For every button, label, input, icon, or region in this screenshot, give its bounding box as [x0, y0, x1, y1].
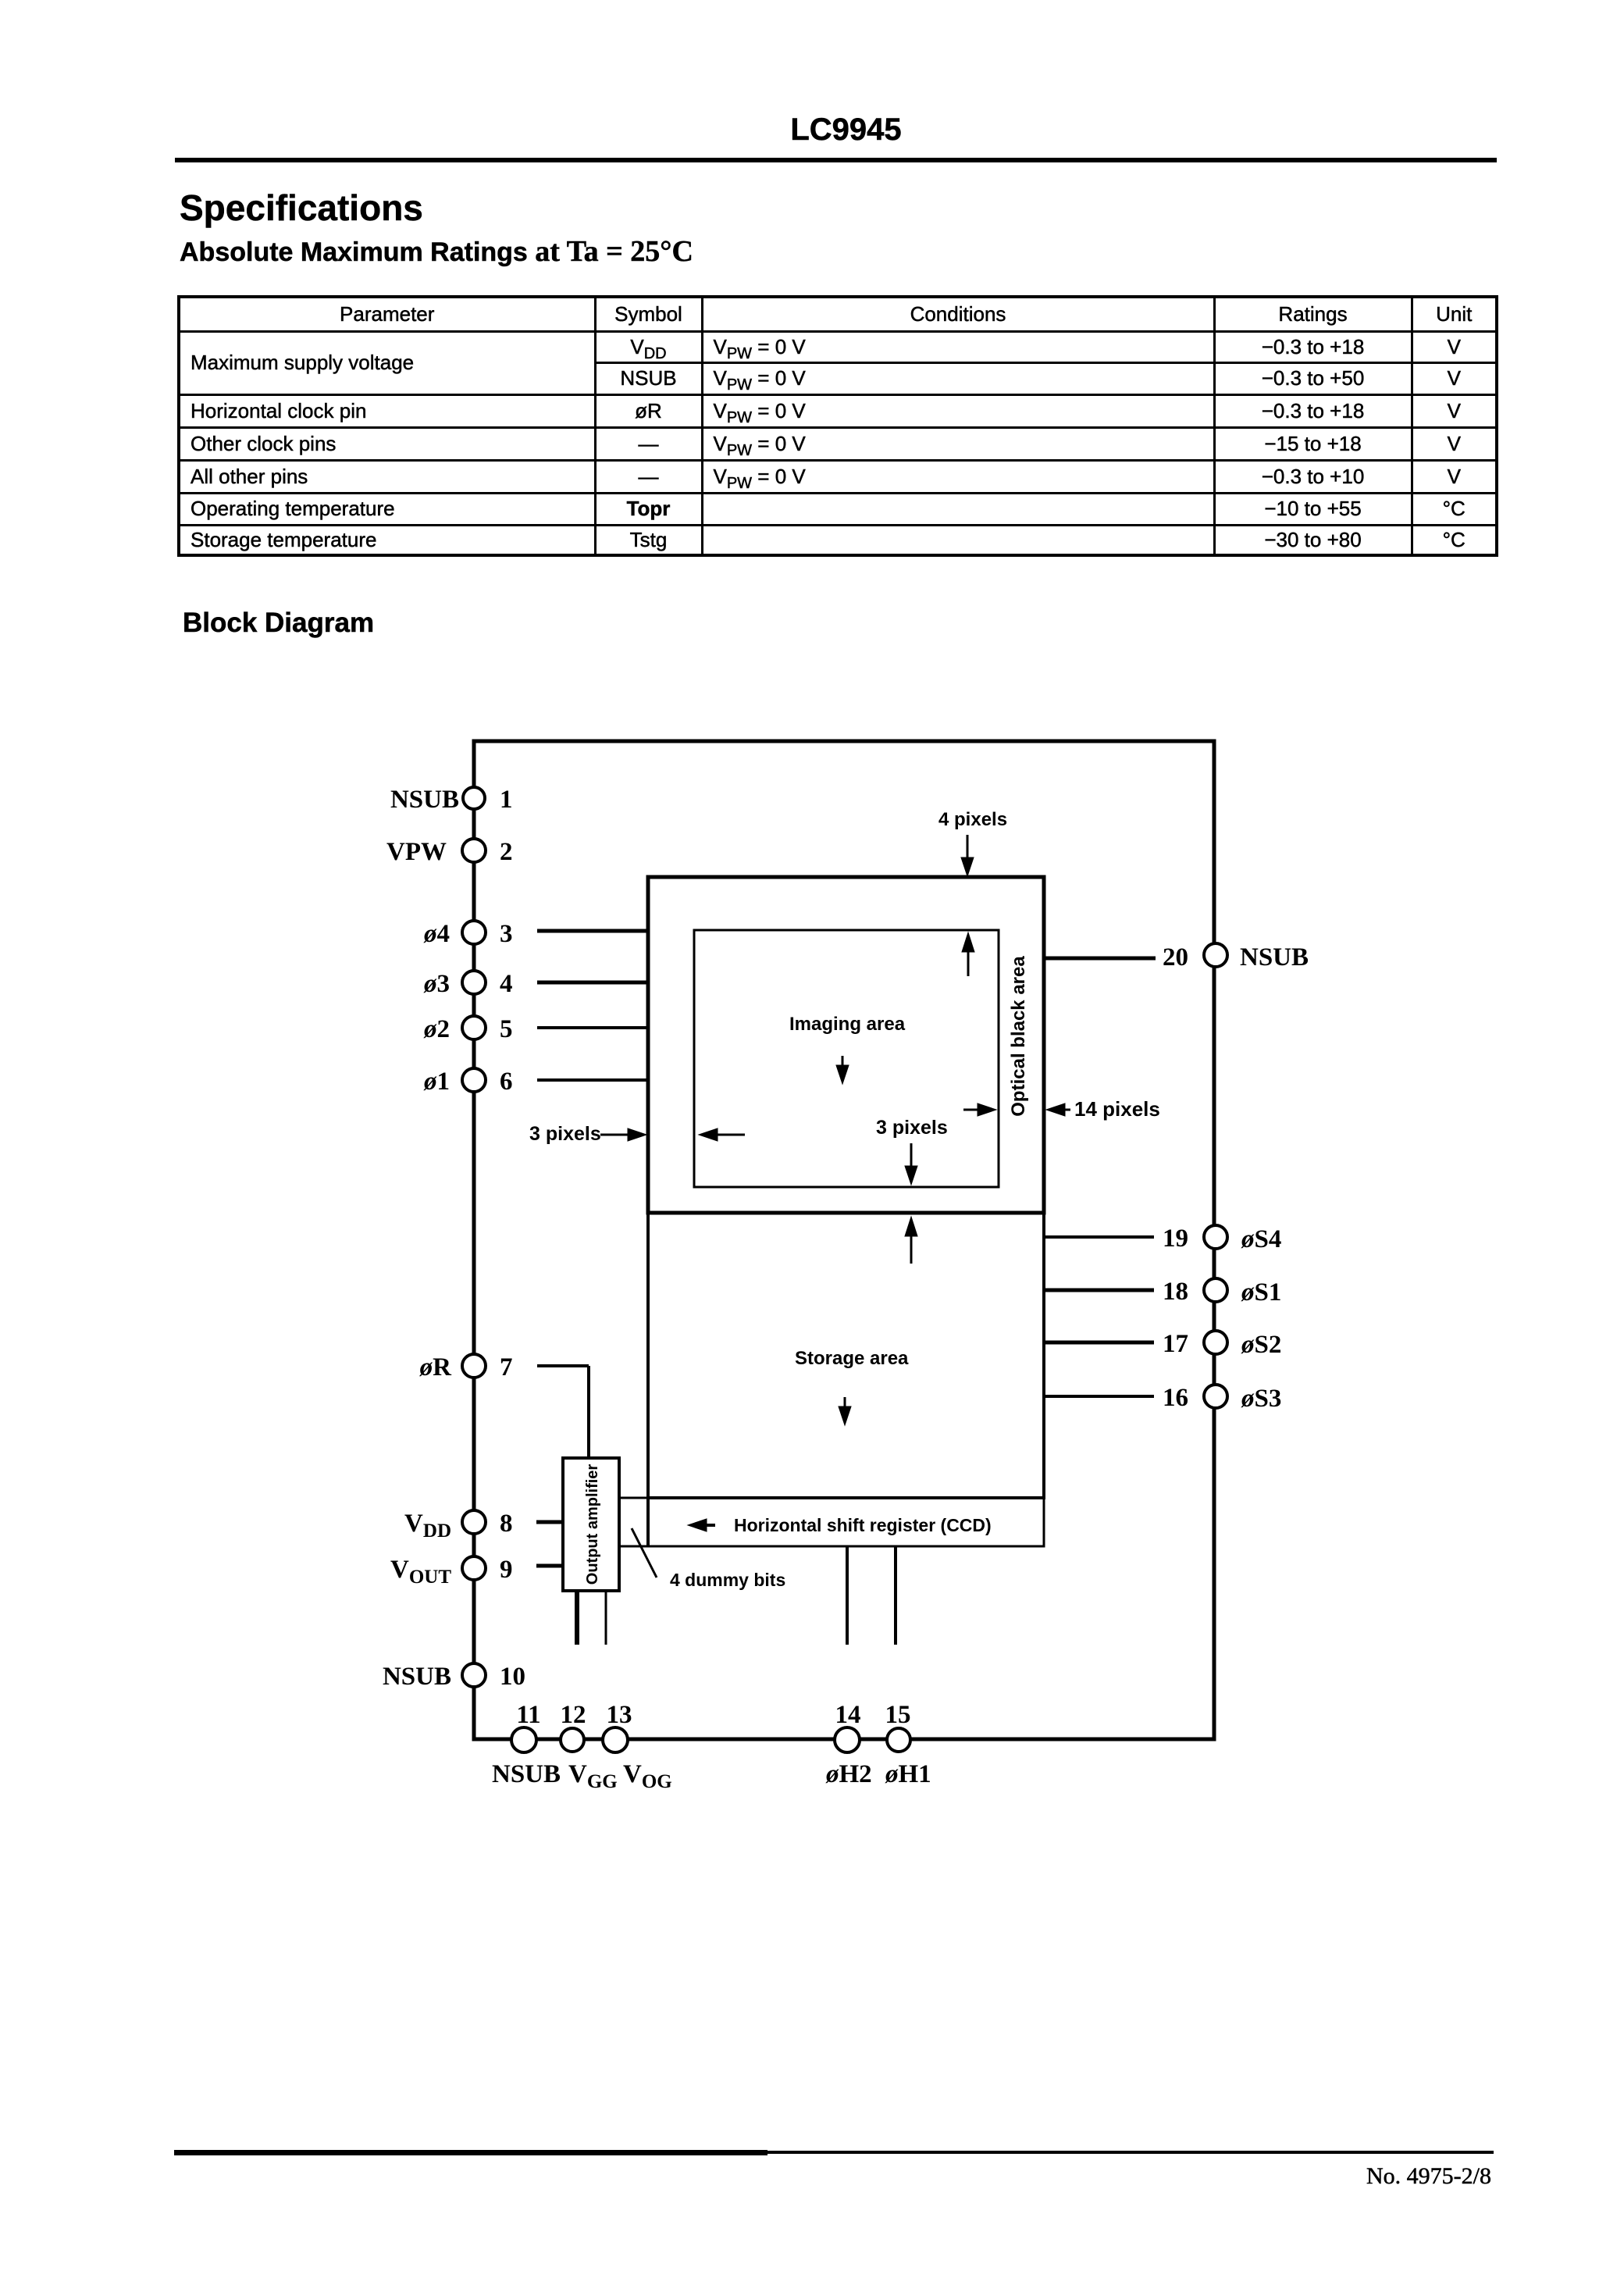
footer page number: [1171, 2163, 1491, 2190]
svg-text:øR: øR: [419, 1353, 453, 1381]
wire pin4: [537, 981, 648, 985]
pin 14: [835, 1727, 860, 1752]
svg-text:14 pixels: 14 pixels: [1074, 1097, 1160, 1121]
shift register lower lead right: [894, 1546, 897, 1645]
svg-text:VPW: VPW: [386, 838, 447, 866]
svg-text:Optical black area: Optical black area: [1008, 956, 1029, 1117]
svg-text:Storage area: Storage area: [795, 1348, 909, 1369]
svg-text:16: 16: [1163, 1384, 1188, 1412]
wire pin7 horizontal: [537, 1364, 589, 1367]
svg-text:17: 17: [1163, 1330, 1188, 1358]
svg-text:NSUB: NSUB: [390, 786, 459, 814]
pin 3: [462, 921, 486, 944]
pin 4: [462, 971, 486, 994]
pin 11: [511, 1727, 536, 1752]
pin 9: [462, 1556, 486, 1580]
4 dummy bits pointer line: [632, 1528, 657, 1577]
svg-text:NSUB: NSUB: [383, 1663, 451, 1691]
pin 10: [462, 1663, 486, 1687]
arrow: shift register direction left: [701, 1524, 715, 1527]
svg-text:ø1: ø1: [423, 1068, 450, 1096]
pin 7: [462, 1354, 486, 1378]
outer chip boundary box: [474, 741, 1214, 1739]
arrow: pointing right to inner box right edge: [963, 1109, 982, 1111]
arrow: imaging area transfer down: [842, 1056, 844, 1070]
svg-text:øH1: øH1: [885, 1760, 931, 1788]
wire pin16: [1044, 1395, 1154, 1398]
svg-text:12: 12: [561, 1701, 586, 1729]
pin 2: [462, 839, 486, 862]
svg-text:ø2: ø2: [423, 1015, 450, 1043]
storage area box: [648, 1213, 1044, 1498]
ratings table: [177, 295, 1498, 557]
pin 17: [1204, 1331, 1227, 1354]
output amplifier lower lead right: [605, 1591, 607, 1645]
header chip name LC9945: [185, 112, 1507, 148]
svg-text:NSUB: NSUB: [1240, 943, 1309, 971]
svg-text:11: 11: [516, 1701, 540, 1729]
arrow: inside inner box pointing left: [714, 1134, 745, 1136]
arrow: up to inner box top: [967, 949, 970, 976]
svg-text:7: 7: [500, 1353, 513, 1381]
footer rule: [174, 2150, 767, 2155]
pin 15: [887, 1728, 910, 1752]
svg-text:VOG: VOG: [623, 1760, 672, 1792]
Specifications heading: [180, 187, 423, 229]
svg-text:ø4: ø4: [423, 920, 450, 948]
svg-text:ø3: ø3: [423, 970, 450, 998]
svg-text:15: 15: [885, 1701, 911, 1729]
svg-text:Horizontal shift register (CCD: Horizontal shift register (CCD): [734, 1515, 992, 1535]
block diagram: [0, 703, 1624, 1874]
wire pin17: [1044, 1341, 1154, 1345]
svg-text:VOUT: VOUT: [390, 1556, 451, 1588]
output amplifier lower lead left: [575, 1591, 579, 1645]
svg-text:4 dummy bits: 4 dummy bits: [670, 1570, 785, 1590]
svg-text:øS4: øS4: [1241, 1225, 1281, 1253]
storage left edge through band: [646, 1498, 650, 1546]
pin 16: [1204, 1385, 1227, 1408]
svg-text:3 pixels: 3 pixels: [529, 1123, 601, 1145]
svg-text:2: 2: [500, 838, 513, 866]
svg-text:VGG: VGG: [568, 1760, 618, 1792]
pin 1: [463, 787, 485, 809]
wire pin20: [1044, 957, 1156, 961]
arrow: storage area transfer down: [844, 1397, 846, 1411]
wire pin9: [536, 1564, 563, 1568]
arrow: 4 pixels down: [600, 835, 1070, 1531]
pin 8: [462, 1510, 486, 1534]
svg-text:9: 9: [500, 1556, 513, 1584]
svg-text:14: 14: [835, 1701, 861, 1729]
svg-text:øH2: øH2: [825, 1760, 872, 1788]
arrow: up to storage divider: [910, 1234, 913, 1264]
pin 5: [462, 1016, 486, 1039]
svg-text:4: 4: [500, 970, 513, 998]
svg-text:13: 13: [607, 1701, 632, 1729]
pin name labels (serif): [383, 786, 1309, 1792]
svg-text:Imaging area: Imaging area: [789, 1014, 906, 1035]
svg-text:5: 5: [500, 1015, 513, 1043]
svg-text:4 pixels: 4 pixels: [938, 809, 1007, 830]
pin 12: [561, 1728, 584, 1752]
pin 19: [1204, 1225, 1227, 1249]
svg-text:18: 18: [1163, 1278, 1188, 1306]
wire pin7 vertical to output amplifier: [587, 1366, 590, 1458]
svg-text:20: 20: [1163, 943, 1188, 971]
svg-text:10: 10: [500, 1663, 525, 1691]
Block Diagram heading: [183, 608, 374, 639]
pin 6: [462, 1068, 486, 1092]
inner imaging area box: [694, 930, 999, 1187]
wire pin3: [537, 929, 648, 933]
arrow: 14 pixels pointing left to imaging box edge: [1061, 1109, 1070, 1111]
arrow: 3 pixels center down: [910, 1143, 913, 1170]
Absolute Maximum Ratings subheading: [180, 234, 693, 269]
pin 13: [603, 1727, 628, 1752]
arrow: 3 pixels left label to imaging edge: [600, 1134, 632, 1136]
svg-text:Output amplifier: Output amplifier: [584, 1464, 601, 1585]
header rule: [175, 158, 1497, 162]
wire pin5: [537, 1026, 648, 1029]
shift register lower lead left: [846, 1546, 849, 1645]
wire pin19: [1044, 1235, 1154, 1239]
svg-text:1: 1: [500, 786, 513, 814]
wire pin18: [1044, 1289, 1154, 1292]
svg-text:3: 3: [500, 920, 513, 948]
pin 18: [1204, 1278, 1227, 1302]
svg-text:øS3: øS3: [1241, 1385, 1281, 1413]
svg-text:NSUB: NSUB: [492, 1760, 561, 1788]
horizontal shift register band: [619, 1498, 1044, 1546]
svg-text:øS2: øS2: [1241, 1331, 1281, 1359]
svg-text:6: 6: [500, 1068, 513, 1096]
diagram annotations (sans): [529, 809, 1160, 1590]
pin circles: [462, 787, 1227, 1752]
wire pin6: [537, 1078, 648, 1082]
svg-text:øS1: øS1: [1241, 1278, 1281, 1307]
output amplifier box: [563, 1458, 619, 1591]
wire pin8: [536, 1520, 563, 1524]
pin 20: [1204, 943, 1227, 967]
imaging section box: [648, 877, 1044, 1213]
svg-text:19: 19: [1163, 1225, 1188, 1253]
svg-text:3 pixels: 3 pixels: [876, 1117, 948, 1139]
svg-text:8: 8: [500, 1510, 513, 1538]
svg-text:VDD: VDD: [404, 1510, 451, 1542]
